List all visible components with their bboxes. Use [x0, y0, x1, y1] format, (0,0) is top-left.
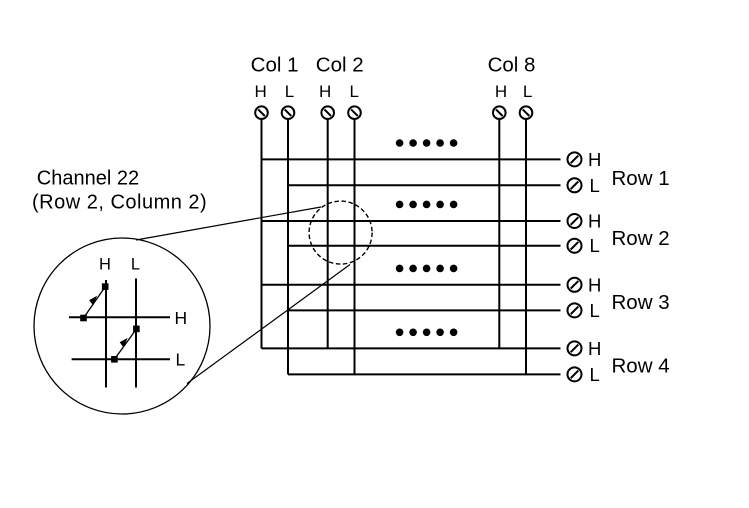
svg-text:Col 2: Col 2	[316, 54, 364, 77]
svg-text:H: H	[319, 82, 331, 101]
terminal Row3 L	[568, 303, 582, 317]
svg-text:L: L	[349, 82, 358, 101]
svg-text:Row 2: Row 2	[612, 227, 670, 250]
dots group row1	[396, 139, 458, 147]
svg-text:H: H	[588, 274, 601, 295]
svg-text:L: L	[523, 82, 532, 101]
callout lower tangent line	[187, 265, 350, 384]
svg-text:L: L	[590, 300, 600, 321]
svg-text:L: L	[590, 235, 600, 256]
svg-text:Row 1: Row 1	[612, 167, 670, 190]
svg-text:Col 8: Col 8	[488, 54, 536, 77]
wire Row3 L horizontal	[288, 309, 561, 311]
wire Col8 L vertical	[525, 120, 527, 374]
wire Col1 L vertical	[287, 120, 289, 374]
wire Row2 H horizontal	[262, 220, 561, 222]
crosspoint highlight circle (dashed)	[309, 201, 372, 264]
wire Col2 H vertical	[327, 120, 329, 348]
terminal Col8 H	[493, 106, 506, 119]
terminal Col2 L	[348, 106, 361, 119]
svg-text:L: L	[590, 175, 600, 196]
svg-text:H: H	[495, 82, 507, 101]
svg-text:H: H	[175, 308, 188, 328]
switch L arm	[114, 330, 135, 359]
terminal Col1 L	[282, 106, 295, 119]
wire Row3 H horizontal	[262, 284, 561, 286]
wire Row4 L horizontal	[288, 373, 561, 375]
switch H contact on column	[102, 283, 109, 290]
terminal Row4 H	[568, 341, 582, 355]
switch H contact on row	[80, 315, 87, 322]
dots group row2	[396, 201, 458, 209]
svg-text:L: L	[131, 255, 140, 273]
svg-text:Channel 22: Channel 22	[37, 168, 139, 190]
dots group row3	[396, 265, 458, 273]
terminal Row2 H	[568, 214, 582, 228]
switch H arm	[84, 289, 105, 319]
svg-text:H: H	[588, 149, 601, 170]
switch H arrowhead	[89, 296, 97, 306]
svg-text:Row 3: Row 3	[612, 291, 670, 314]
wire Col2 L vertical	[354, 120, 356, 374]
loupe wire L horizontal	[72, 358, 170, 360]
svg-text:H: H	[588, 338, 601, 359]
dots group row4	[396, 329, 458, 337]
callout upper tangent line	[136, 207, 321, 240]
terminal Row2 L	[568, 239, 582, 253]
wire Row4 H horizontal	[262, 347, 561, 349]
wire Col8 H vertical	[498, 120, 500, 348]
wire Row1 H horizontal	[262, 158, 561, 160]
loupe wire L vertical	[135, 279, 137, 388]
terminal Col1 H	[255, 106, 268, 119]
svg-text:Row 4: Row 4	[612, 354, 670, 377]
terminal Col8 L	[520, 106, 533, 119]
switch L arrowhead	[120, 338, 128, 348]
terminal Row1 H	[568, 152, 582, 166]
wire Col1 H vertical	[261, 120, 263, 348]
loupe wire H vertical	[105, 280, 107, 388]
svg-text:H: H	[99, 255, 111, 273]
svg-text:H: H	[588, 211, 601, 232]
terminal Row4 L	[568, 367, 582, 381]
svg-text:L: L	[176, 350, 186, 370]
switch L contact on row	[111, 356, 118, 363]
loupe wire H horizontal	[69, 316, 170, 318]
terminal Col2 H	[321, 106, 334, 119]
wire Row1 L horizontal	[288, 184, 561, 186]
svg-text:L: L	[590, 364, 600, 385]
svg-text:Col 1: Col 1	[251, 54, 299, 77]
terminal Row3 H	[568, 278, 582, 292]
wire Row2 L horizontal	[288, 245, 561, 247]
switch L contact on column	[133, 326, 140, 333]
magnifier loupe circle	[34, 238, 210, 414]
terminal Row1 L	[568, 178, 582, 192]
svg-text:(Row 2, Column 2): (Row 2, Column 2)	[32, 192, 207, 214]
svg-text:L: L	[285, 82, 294, 101]
svg-text:H: H	[255, 82, 267, 101]
